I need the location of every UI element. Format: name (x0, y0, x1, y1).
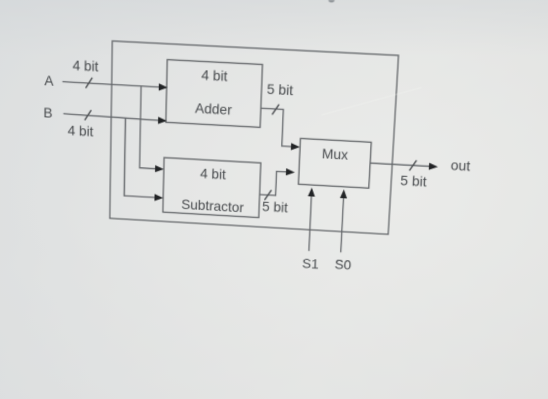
arrowhead A into adder (159, 83, 168, 91)
arrowhead into subtractor input 1 (155, 165, 164, 173)
bus width slash on mux output (410, 160, 417, 170)
wire input B to adder (63, 114, 161, 121)
arrowhead adder output into mux (291, 143, 300, 151)
arrowhead S1 into mux (308, 187, 315, 196)
wire select S1 (309, 193, 312, 251)
arrowhead S0 into mux (340, 189, 348, 198)
bus width slash on adder output (272, 104, 278, 114)
arrowhead subtractor output into mux (286, 168, 295, 176)
wire mux output to out (370, 163, 432, 166)
bus width slash on A (86, 78, 92, 88)
smudge mark top edge (328, 0, 334, 2)
bus width slash on subtractor output (265, 190, 271, 200)
block U3: Mux box (298, 138, 371, 188)
wire adder output to mux (259, 108, 296, 147)
outer enclosure box (110, 41, 399, 234)
faint scratch on photo (322, 88, 422, 116)
block U1: 4-bit Adder box (166, 60, 263, 128)
arrowhead into subtractor input 2 (154, 194, 163, 202)
wire select S0 (341, 194, 344, 252)
arrowhead B into adder (158, 117, 167, 125)
block U2: 4-bit Subtractor box (163, 158, 261, 218)
bus width slash on B (85, 110, 91, 120)
wire B branch down to subtractor (124, 118, 160, 198)
wire subtractor output to mux (260, 170, 290, 196)
arrowhead out (429, 163, 438, 171)
wire A branch down to subtractor (140, 86, 161, 169)
wire input A to adder (62, 82, 161, 88)
